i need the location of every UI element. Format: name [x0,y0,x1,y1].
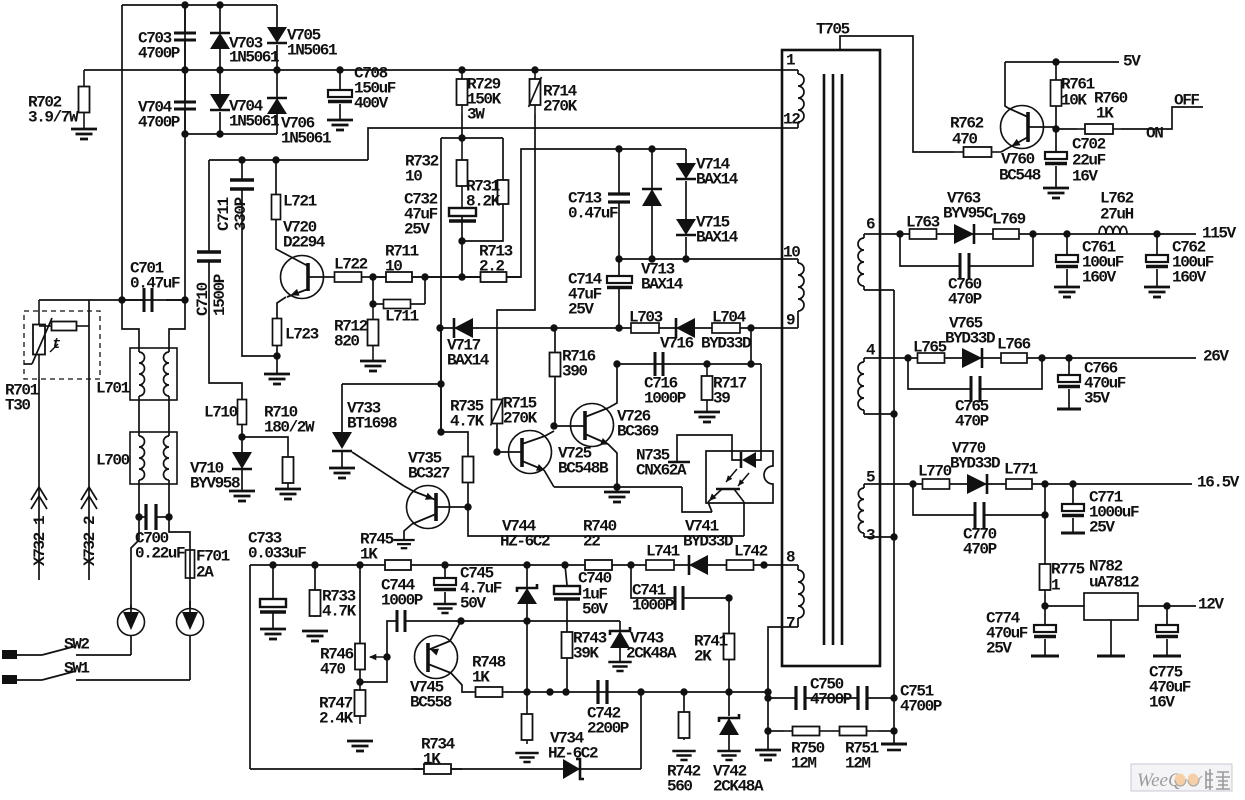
svg-text:2CK48A: 2CK48A [626,645,677,663]
svg-text:270K: 270K [503,410,538,428]
diode V770 [967,474,987,494]
transistor V745 [415,636,458,679]
resistor R717 [702,364,713,412]
wire R746 bottom link [360,657,387,682]
svg-text:1000P: 1000P [644,390,686,408]
transistor V735 [407,486,450,529]
optocoupler N735 [706,451,773,503]
wire AC filter top [39,299,185,301]
capacitor C765 [908,358,971,389]
inductor L763 [910,229,937,239]
svg-text:7: 7 [786,615,796,633]
wire opto emitter return [682,487,712,512]
resistor R741 [728,598,730,633]
svg-text:35V: 35V [1084,390,1110,408]
svg-text:L723: L723 [285,326,319,344]
wire R713 row [425,149,686,277]
svg-text:SW1: SW1 [64,660,89,678]
resistor R735 [437,428,444,435]
wire bridge mid column [184,5,186,300]
resistor R750 [768,730,784,732]
svg-text:L701: L701 [96,380,130,398]
svg-text:L700: L700 [96,452,130,470]
svg-text:330P: 330P [232,197,250,231]
wire 115V rail [894,233,1196,235]
wire x441 column [440,138,442,432]
svg-text:1K: 1K [1096,105,1114,123]
wire pin7 drop [768,627,782,750]
svg-text:10K: 10K [1061,92,1087,110]
capacitor C703 [184,5,186,33]
wire 12V rail [1138,605,1196,607]
svg-text:SW2: SW2 [64,636,89,654]
svg-text:560: 560 [667,778,692,796]
capacitor C740 [565,565,567,585]
transistor V725 [493,448,500,455]
inductor L741 [646,560,674,570]
ground V725 V726 [616,487,618,492]
capacitor C774 [1044,606,1046,625]
transformer L700 [130,432,177,484]
svg-text:2.2: 2.2 [479,258,504,276]
resistor R729 [457,70,468,114]
diode V763 [954,224,974,244]
inductor L765 [918,353,945,363]
inductor L771 [1006,479,1032,489]
wire 16.5V to regulator [1044,484,1046,560]
light arrows [726,469,737,482]
resistor R742 [683,692,685,710]
inductor L710 [238,400,247,425]
phototransistor in optocoupler [716,488,740,491]
inductor L723 [273,319,282,346]
svg-text:1N5061: 1N5061 [229,49,279,67]
diode V717 [454,318,473,338]
svg-text:25V: 25V [1089,519,1115,537]
svg-text:C710: C710 [194,282,212,316]
svg-text:2200P: 2200P [587,720,629,738]
svg-text:V716 BYD33D: V716 BYD33D [660,335,751,353]
node bridge bottom [181,130,188,137]
svg-text:4700P: 4700P [900,698,942,716]
winding pin1-12 [782,69,798,71]
svg-text:4: 4 [866,342,876,360]
svg-text:uA7812: uA7812 [1089,574,1139,592]
svg-text:1000P: 1000P [632,597,674,615]
winding pin4 [864,357,880,359]
inductor L704 [712,323,740,333]
wire rail y565 middle [445,564,585,566]
svg-text:CNX62A: CNX62A [636,462,687,480]
capacitor C775 [1166,606,1168,625]
svg-text:0.47uF: 0.47uF [568,205,618,223]
svg-text:1000P: 1000P [381,592,423,610]
wire y692 row [505,691,768,693]
svg-text:12V: 12V [1198,596,1224,614]
connector X732 2 [81,487,97,509]
svg-text:4700P: 4700P [138,45,180,63]
svg-text:1K: 1K [360,546,378,564]
svg-text:2K: 2K [694,648,712,666]
svg-text:BAX14: BAX14 [696,171,739,189]
capacitor C700 [138,484,140,540]
capacitor C732 [449,208,476,221]
plug P1 [118,609,145,636]
regulator N782 [1045,605,1084,607]
svg-text:16V: 16V [1072,168,1098,186]
svg-text:0.22uF: 0.22uF [135,545,185,563]
diode V765 [962,348,982,368]
svg-text:4.7K: 4.7K [322,603,357,621]
resistor R748 [473,687,505,697]
svg-text:1: 1 [1051,577,1060,595]
diode V714 [685,149,687,163]
svg-text:HZ-6C2: HZ-6C2 [548,745,598,763]
svg-text:0.47uF: 0.47uF [130,275,180,293]
svg-text:180/2W: 180/2W [264,419,315,437]
svg-text:5: 5 [866,469,876,487]
svg-text:BC369: BC369 [617,423,659,441]
capacitor C751 [858,686,867,710]
svg-text:390: 390 [562,363,587,381]
capacitor C701 [122,299,144,301]
wire main + rail [84,69,782,71]
resistor R702 [79,70,90,129]
svg-text:BC327: BC327 [408,465,450,483]
svg-text:L704: L704 [712,309,747,327]
wire L701-L700 links [138,400,140,432]
resistor R760 [1056,128,1077,130]
node bridge top [181,1,188,8]
svg-text:25V: 25V [986,640,1012,658]
svg-text:X732 1: X732 1 [31,516,49,566]
resistor R716 [554,328,556,351]
capacitor C760 [900,234,960,266]
wire emitter row [373,276,521,278]
resistor R715 [491,398,504,426]
svg-text:2A: 2A [196,564,214,582]
svg-text:115V: 115V [1202,225,1237,243]
capacitor C714 [618,259,620,276]
resistor R710 [242,437,288,451]
wire X732 2 lead [88,300,90,326]
transformer T705 box [782,50,880,666]
svg-text:L710: L710 [204,404,238,422]
transistor V726 [550,422,557,429]
transistor V720 [281,256,324,299]
capacitor C710 [208,160,210,252]
wire startup row y160 [209,159,368,161]
wire bridge AC input left [122,5,139,348]
svg-text:160V: 160V [1172,269,1207,287]
svg-text:L771: L771 [1004,461,1038,479]
svg-text:L703: L703 [629,309,663,327]
svg-text:OFF: OFF [1174,92,1199,110]
fuse F701 [186,550,195,578]
svg-text:160V: 160V [1082,269,1117,287]
diode V705 [276,5,278,27]
svg-text:L722: L722 [334,256,368,274]
winding pin10-9 [782,258,798,260]
wire X732 1 lead [38,379,40,580]
svg-text:10: 10 [385,258,402,276]
transistor V760 [1001,106,1044,149]
diode V715 [685,181,687,219]
svg-text:L742: L742 [734,543,768,561]
svg-text:5V: 5V [1123,53,1141,71]
svg-text:16V: 16V [1149,694,1175,712]
svg-text:10: 10 [405,168,422,186]
svg-text:BAX14: BAX14 [696,229,739,247]
resistor R732 [457,138,468,208]
wire emitter ground row [554,486,682,488]
ground pin7 [755,750,781,760]
inductor L766 [1001,353,1027,363]
resistor R745 [384,560,412,570]
wire R746 column [359,565,361,644]
svg-text:t: t [52,336,61,353]
resistor R711 [377,272,421,282]
svg-text:6: 6 [866,216,876,234]
svg-text:ON: ON [1146,125,1163,143]
resistor R775 [1040,560,1051,594]
capacitor C711 [241,160,243,180]
capacitor C708 [339,70,341,90]
svg-text:1K: 1K [472,669,490,687]
capacitor C744 [397,610,405,632]
svg-text:1K: 1K [423,751,441,769]
wire x441 to V733/R735 [440,328,442,432]
svg-text:50V: 50V [582,601,608,619]
svg-text:BYD33D: BYD33D [950,455,1000,473]
inductor L703 [631,323,659,333]
capacitor C702 [1055,129,1057,152]
svg-text:2.4K: 2.4K [319,710,354,728]
svg-text:HZ-6C2: HZ-6C2 [500,533,550,551]
svg-text:L770: L770 [918,463,952,481]
inductor L722 [335,272,362,282]
svg-text:BT1698: BT1698 [347,415,397,433]
zener V742 [728,692,730,716]
svg-text:27uH: 27uH [1100,206,1134,224]
capacitor C704 [184,70,186,102]
svg-text:BAX14: BAX14 [641,276,684,294]
diode V710 [241,437,243,452]
resistor R714 [529,70,542,114]
svg-text:L766: L766 [997,336,1031,354]
capacitor C761 [1066,234,1068,255]
ground regulator [1110,620,1112,656]
wire bridge bottom rail [185,133,277,135]
resistor R749 under V744 [526,621,528,710]
ground V735 base [393,540,414,548]
svg-text:470: 470 [952,131,977,149]
svg-text:39: 39 [713,390,730,408]
capacitor C750 [768,697,796,699]
svg-text:1: 1 [786,52,796,70]
wire N735 stub [668,461,690,463]
LED in optocoupler [740,452,743,468]
diode V703 [219,5,221,32]
svg-text:3W: 3W [467,106,485,124]
svg-text:8: 8 [786,549,796,567]
plug P2 [189,578,191,608]
wire bottom feedback row [250,768,641,770]
wire R745 to rail [412,564,445,566]
capacitor C766 [1068,358,1070,375]
dashed enclosure [24,311,100,379]
svg-text:BYD33D: BYD33D [683,533,733,551]
svg-text:1N5061: 1N5061 [229,113,279,131]
watermark [1131,764,1232,791]
wire 26V rail [880,357,1196,359]
switch SW2 [42,646,76,655]
svg-text:26V: 26V [1203,348,1229,366]
wire V735 collector [436,506,468,508]
inductor L742 [727,560,754,570]
svg-text:C711: C711 [215,197,233,231]
wire SW2 [130,636,132,655]
svg-text:12M: 12M [845,755,870,773]
node bridge mid [181,66,188,73]
capacitor C745 [444,565,446,578]
thermistor R701 [33,300,45,379]
svg-text:470P: 470P [963,541,997,559]
capacitor C716 [655,352,663,376]
svg-text:10: 10 [783,244,800,262]
wire y621 row [457,617,464,624]
wire pin12 rail [368,128,782,160]
resistor R731 [502,138,504,180]
wire 16.5V rail [880,483,1192,485]
svg-text:D2294: D2294 [283,234,326,252]
svg-text:3: 3 [866,527,876,545]
transformer core [823,74,826,645]
potentiometer R746 [355,644,365,670]
wire 115V enter [880,233,894,235]
thyristor V733 [342,383,441,385]
winding pin5-3 [864,483,880,485]
inductor L769 [993,229,1019,239]
svg-text:BYD33D: BYD33D [945,330,995,348]
svg-text:L711: L711 [385,308,419,326]
wire 5V rail [1005,61,1119,63]
wire SW1 [189,636,191,680]
wire C716 row [617,363,761,365]
wire pin9 rail [440,327,782,329]
svg-text:4700P: 4700P [810,691,852,709]
wire top rail [122,4,277,6]
inductor L770 [923,479,950,489]
winding pin6 [864,233,880,235]
zener V734 [563,759,580,779]
svg-text:470: 470 [320,661,345,679]
svg-text:4.7K: 4.7K [450,413,485,431]
svg-text:1N5061: 1N5061 [281,130,331,148]
zener V744 [526,565,528,589]
svg-text:L769: L769 [992,211,1026,229]
svg-text:L741: L741 [646,543,680,561]
svg-text:12: 12 [783,111,800,129]
wire bridge AC input right [169,300,185,348]
resistor R733 [314,565,316,589]
capacitor C713 [615,145,622,152]
wire R743 column [567,620,620,622]
svg-text:L721: L721 [283,193,317,211]
svg-text:39K: 39K [573,645,599,663]
wire plug lead 1 [131,540,139,608]
svg-text:25V: 25V [568,301,594,319]
svg-text:2CK48A: 2CK48A [713,778,764,796]
inductor L711 [372,277,374,304]
diode V716 [676,318,695,338]
svg-text:820: 820 [334,333,359,351]
resistor R734 [413,764,462,774]
inductor L721 [275,160,277,195]
inductor L762 [1099,226,1127,234]
resistor in series with R701 [39,322,89,331]
svg-text:470P: 470P [955,413,989,431]
resistor R712 [369,300,376,307]
capacitor C771 [1072,484,1074,504]
diode V704 [219,70,221,94]
wire primary feed top [840,36,954,152]
svg-text:BC548B: BC548B [558,460,609,478]
wire secondary common bus [893,290,895,744]
resistor R713 [468,272,519,282]
svg-text:BAX14: BAX14 [447,352,490,370]
svg-text:BYV95C: BYV95C [943,205,994,223]
svg-text:12M: 12M [791,755,816,773]
winding pin8-7 [782,564,798,566]
resistor R761 [1055,62,1057,80]
capacitor C733 [272,565,274,599]
svg-text:0.033uF: 0.033uF [248,545,306,563]
svg-text:1500P: 1500P [211,274,229,316]
svg-text:270K: 270K [543,98,578,116]
svg-text:BC558: BC558 [410,694,452,712]
capacitor C770 [913,484,975,515]
wire feedback riser [640,692,642,769]
svg-text:9: 9 [786,312,796,330]
diode V706 [276,70,278,97]
svg-text:T30: T30 [5,397,30,415]
svg-text:L765: L765 [913,339,947,357]
svg-text:1N5061: 1N5061 [287,42,337,60]
wire C744 row [387,621,397,657]
svg-text:BC548: BC548 [999,167,1041,185]
svg-text:50V: 50V [460,595,486,613]
ground L723 [276,356,278,374]
wire ON OFF switch [1121,107,1203,129]
diode V713 [648,145,655,152]
diode V741 [689,555,708,575]
wire to optocoupler collector [468,507,744,536]
resistor R743 [566,621,568,631]
resistor R740 [585,560,612,570]
svg-text:470P: 470P [948,291,982,309]
svg-text:400V: 400V [354,95,389,113]
zener V743 [619,621,621,631]
wire pin10 rail [617,258,782,260]
wire V733 gate [352,452,404,486]
capacitor C742 [598,680,607,704]
svg-text:16.5V: 16.5V [1197,474,1240,492]
svg-text:X732 2: X732 2 [81,516,99,566]
wire low-voltage rail y565 [250,564,384,566]
ground secondary bus [881,743,907,746]
svg-text:BYV958: BYV958 [190,475,240,493]
